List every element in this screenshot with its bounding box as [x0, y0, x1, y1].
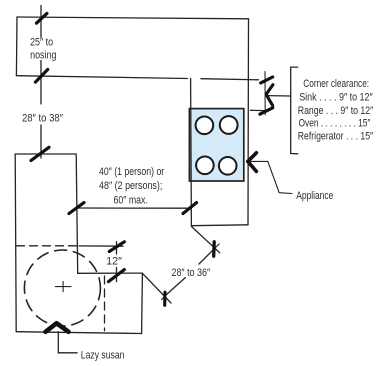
- wire top wall line: [17, 17, 249, 19]
- svg-text:nosing: nosing: [30, 50, 56, 62]
- wire lazy susan cabinet dashed right: [104, 276, 106, 331]
- arrowhead appliance: [248, 153, 257, 172]
- tick 25in bottom: [35, 70, 47, 83]
- burner bottom-right: [219, 157, 237, 175]
- wire dimension 12in vertical: [116, 242, 118, 282]
- svg-text:25″ to: 25″ to: [30, 37, 53, 49]
- wire corner clearance lower reference: [251, 109, 265, 111]
- burner top-left: [196, 117, 214, 135]
- wire front edge upper counter: [16, 76, 187, 79]
- svg-text:60″ max.: 60″ max.: [113, 195, 147, 207]
- wire 12in extension line: [79, 245, 123, 247]
- wire dimension 40-60 horizontal: [75, 207, 189, 209]
- wire diagonal dimension overshoot B: [162, 295, 166, 300]
- tick 40-60 right: [183, 203, 197, 214]
- tick diagonal B: [163, 292, 166, 305]
- wire lazy susan cabinet dashed top: [17, 245, 78, 247]
- wire diagonal dimension segment upper: [199, 249, 214, 264]
- wire left counter outline: [15, 154, 142, 334]
- arrowhead lazy susan: [46, 323, 69, 332]
- lazy susan dashed circle: [24, 250, 100, 326]
- wire right column left edge: [190, 79, 193, 226]
- svg-text:40″ (1 person) or: 40″ (1 person) or: [99, 166, 165, 178]
- tick corner clearance top: [261, 77, 273, 83]
- svg-text:Refrigerator . . . 15″: Refrigerator . . . 15″: [298, 131, 374, 143]
- tick 28-38 bottom: [31, 147, 49, 160]
- wire corner clearance extension vertical: [264, 72, 266, 115]
- wire appliance leader: [248, 161, 292, 193]
- tick 40-60 left: [69, 203, 84, 214]
- svg-text:28″ to 38″: 28″ to 38″: [22, 113, 63, 125]
- bracket corner clearance: [291, 67, 298, 154]
- svg-text:Corner clearance:: Corner clearance:: [303, 78, 369, 90]
- wire left edge upper counter: [15, 17, 18, 76]
- tick corner clearance bottom: [260, 108, 273, 114]
- burner bottom-left: [196, 157, 214, 175]
- burner top-right: [220, 116, 238, 134]
- svg-text:Sink . . . . 9″ to 12″: Sink . . . . 9″ to 12″: [299, 92, 373, 104]
- lazy susan center cross: [55, 281, 71, 291]
- tick diagonal A: [212, 242, 216, 256]
- wire diagonal dimension segment lower: [166, 278, 185, 295]
- wire lazy susan leader: [58, 332, 77, 353]
- svg-text:28″ to 36″: 28″ to 36″: [171, 267, 210, 279]
- tick 25in top: [37, 13, 47, 23]
- svg-text:Range . . . 9″ to 12″: Range . . . 9″ to 12″: [298, 105, 374, 117]
- tick 12in bottom: [109, 270, 125, 282]
- svg-text:Lazy susan: Lazy susan: [81, 350, 125, 362]
- wire corner clearance leader: [267, 95, 291, 97]
- wire right column bottom edge: [191, 224, 248, 227]
- appliance cooktop body: [189, 109, 243, 181]
- wire diagonal extension A: [192, 227, 220, 253]
- svg-text:Appliance: Appliance: [296, 190, 333, 202]
- arrows corner clearance K: [267, 85, 273, 94]
- svg-text:Oven . . . . . . . . 15″: Oven . . . . . . . . 15″: [299, 117, 371, 129]
- svg-text:12″: 12″: [106, 256, 122, 268]
- svg-text:48″ (2 persons);: 48″ (2 persons);: [99, 180, 162, 192]
- wire right column right edge: [247, 19, 250, 225]
- wire corner clearance upper reference: [201, 79, 259, 80]
- wire diagonal dimension overshoot A: [214, 244, 219, 249]
- tick 12in top: [109, 242, 124, 252]
- wire left counter bottom edge: [16, 332, 141, 334]
- wire diagonal extension B: [142, 273, 171, 303]
- wire dimension 25in vertical: [40, 6, 42, 159]
